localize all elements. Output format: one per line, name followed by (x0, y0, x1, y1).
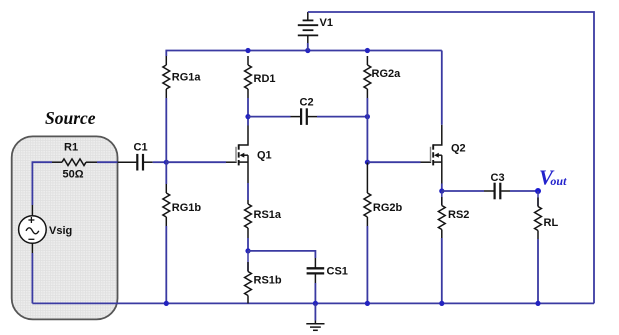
wire: RG1a column (165, 98, 167, 162)
node: RG1b to rail (164, 301, 169, 306)
resistor RS1b (245, 251, 252, 304)
svg-text:Q1: Q1 (257, 150, 272, 162)
svg-text:RG2b: RG2b (373, 202, 403, 214)
wire: rail to ground symbol (314, 303, 316, 320)
node: rail at RD1 (245, 48, 250, 53)
wire: RL bottom to rail (537, 239, 539, 303)
resistor RD1 (245, 56, 252, 98)
wire: C2 to RG2 column (317, 116, 367, 118)
svg-text:R1: R1 (64, 142, 78, 154)
wire: RD1 bottom to drain node (247, 98, 249, 117)
svg-text:RL: RL (544, 217, 559, 229)
svg-text:C2: C2 (300, 97, 314, 109)
svg-text:RG1a: RG1a (172, 72, 202, 84)
svg-text:Vsig: Vsig (49, 225, 72, 237)
resistor RS2 (438, 191, 445, 238)
wire: drain node to C2 (248, 116, 291, 118)
resistor RG2b (364, 163, 371, 226)
resistor RS1a (245, 200, 252, 238)
svg-text:C1: C1 (134, 142, 148, 154)
svg-text:V1: V1 (320, 17, 333, 29)
node: RG2b to rail (365, 301, 370, 306)
wire: gate node to Q1 gate (166, 161, 226, 163)
wire: Q2 source down to output node (441, 184, 443, 192)
wire: C1 to gate node (153, 161, 167, 163)
wire: V1 top to right edge and down to rail (308, 12, 594, 303)
resistor RL (535, 191, 542, 239)
capacitor C3 (484, 183, 510, 200)
wire: C3 to Vout node (510, 190, 538, 192)
ground (306, 321, 324, 331)
transistor Q2 (421, 125, 442, 184)
wire: RG2b bottom to rail (366, 226, 368, 303)
node: Q1 drain / C2 (245, 114, 250, 119)
wire: Q1 source to RS1a (247, 183, 249, 200)
svg-text:RG1b: RG1b (172, 202, 202, 214)
svg-text:CS1: CS1 (327, 266, 348, 278)
resistor RG2a (364, 56, 371, 98)
node: Q2 gate junction (365, 160, 370, 165)
svg-text:Q2: Q2 (451, 143, 466, 155)
wire: Vsig bottom to ground rail (31, 253, 33, 303)
wire: CS1 bottom to rail (314, 283, 316, 303)
wire: mid node to CS1 (248, 251, 315, 258)
node: rail at V1 (305, 48, 310, 53)
wire: top supply rail (166, 51, 442, 57)
source block (12, 136, 118, 319)
wire: RS2 bottom to rail (441, 238, 443, 303)
wire: Vsig top to R1 left (32, 162, 52, 205)
wire: gate node to Q2 gate (367, 161, 420, 163)
node: RL to rail (535, 301, 540, 306)
capacitor C1 (118, 154, 153, 171)
wire: drain node down to Q1 (247, 117, 249, 126)
node: Q2 source / RS2 / C3 (439, 188, 444, 193)
resistor RG1b (163, 184, 170, 226)
wire: V1 bottom lead to rail (307, 43, 309, 51)
transistor Q1 (226, 126, 248, 184)
svg-text:out: out (550, 174, 567, 188)
wire: output node to C3 (442, 190, 484, 192)
source Vsig (19, 205, 47, 253)
node Vout (535, 188, 541, 194)
node: RS2 to rail (439, 301, 444, 306)
svg-text:C3: C3 (491, 172, 505, 184)
wire: R1 to C1 (97, 161, 118, 163)
node: C1 / RG1 junction (164, 160, 169, 165)
wire: bottom ground rail (32, 302, 594, 304)
svg-text:Source: Source (45, 108, 96, 128)
svg-text:RS2: RS2 (448, 209, 469, 221)
svg-text:RD1: RD1 (254, 73, 276, 85)
node: CS1 / ground junction (313, 301, 318, 306)
battery V1 (298, 12, 318, 43)
wire: rail down to Q2 drain (441, 51, 443, 125)
svg-text:RS1b: RS1b (254, 275, 282, 287)
capacitor C2 (291, 108, 318, 125)
node: RS1 mid / CS1 (245, 248, 250, 253)
capacitor CS1 (307, 258, 325, 283)
wire: RS1a to mid node (247, 238, 249, 251)
node: C2 / RG2 junction (365, 114, 370, 119)
wire: RG2a bottom to C2 node and gate node (366, 98, 368, 162)
node: rail at RG2a (365, 48, 370, 53)
svg-text:RS1a: RS1a (254, 209, 282, 221)
svg-text:RG2a: RG2a (372, 68, 402, 80)
resistor R1 (52, 159, 97, 166)
wire: gate node down to RG1b and to rail (165, 162, 167, 184)
svg-text:50Ω: 50Ω (63, 169, 84, 181)
resistor RG1a (163, 56, 170, 98)
